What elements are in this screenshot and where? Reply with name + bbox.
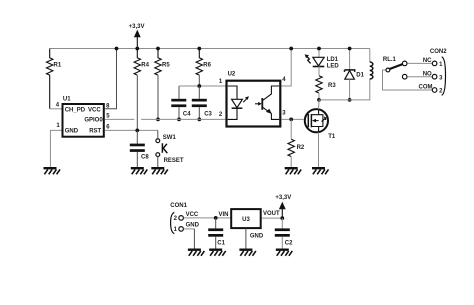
svg-text:U1: U1	[63, 97, 71, 103]
ground (U1 GND)	[44, 167, 61, 174]
wire: C3 top riser	[198, 86, 200, 99]
IC U1 ESP-01	[63, 97, 104, 137]
ground (T1)	[312, 167, 329, 174]
node VIN/C1 junction	[214, 216, 218, 220]
U2 internal phototransistor	[255, 103, 260, 105]
svg-text:D1: D1	[356, 73, 364, 79]
capacitor C4	[171, 99, 191, 118]
svg-text:C4: C4	[183, 112, 191, 118]
wire: R1 bottom to U1 CH_PD	[50, 108, 62, 110]
svg-text:LD1: LD1	[327, 57, 339, 63]
wire: R4 bottom down to RST net (crosses GPIO0 wire)	[136, 75, 138, 130]
wire: RST net U1 pin6 to SW1	[105, 129, 158, 131]
node rail/U2 pin4 junction	[289, 47, 293, 51]
wire: VCC riser to U1 pin 8	[105, 49, 117, 109]
svg-text:C8: C8	[141, 155, 149, 161]
node R6/C3/C4 net junction	[197, 84, 201, 88]
ground (C1)	[209, 249, 226, 256]
svg-text:VIN: VIN	[219, 212, 229, 218]
U2 internal LED	[228, 86, 237, 99]
svg-text:NO: NO	[423, 72, 432, 78]
LED LD1	[305, 49, 340, 70]
wire: rail right end down to relay coil	[369, 49, 371, 63]
svg-text:GND: GND	[250, 233, 264, 239]
capacitor C2	[275, 218, 293, 248]
svg-text:T1: T1	[328, 134, 336, 140]
switch SW1 RESET	[156, 135, 184, 164]
svg-text:R1: R1	[54, 62, 62, 68]
svg-text:VOUT: VOUT	[263, 211, 280, 217]
node C4/GPIO0 junction	[177, 118, 181, 122]
svg-text:R6: R6	[203, 62, 211, 68]
svg-text:U3: U3	[242, 217, 250, 223]
wire: LD1 to R3	[318, 66, 320, 75]
optocoupler U2	[227, 72, 281, 127]
svg-text:R3: R3	[328, 83, 336, 89]
wire: R6 bottom to C-top net	[198, 75, 200, 86]
node rail/R6 junction	[197, 47, 201, 51]
wire: SW1 bottom to ground	[157, 157, 159, 168]
wire: drain node to T1	[318, 100, 321, 109]
node rail/R5 junction	[156, 47, 160, 51]
wire: drain bus to relay	[319, 79, 370, 100]
node C3/GPIO0 junction	[197, 118, 201, 122]
svg-text:LED: LED	[327, 63, 340, 69]
wire: U2 pin3 to T1 gate	[281, 118, 304, 120]
capacitor C8	[130, 130, 150, 167]
relay RL.1 coil	[370, 57, 397, 79]
svg-text:GND: GND	[65, 129, 79, 135]
wire: CON1 GND down	[184, 228, 195, 230]
ground (CON1 GND)	[188, 249, 205, 256]
wire: R3 to drain node	[318, 93, 320, 100]
node rail/VCC junction	[115, 47, 119, 51]
resistor R2	[288, 119, 305, 167]
resistor R5	[155, 49, 171, 76]
power +3,3V (bottom)	[275, 195, 291, 218]
svg-text:RST: RST	[89, 129, 101, 135]
svg-text:U2: U2	[228, 72, 236, 78]
power +3,3V (top)	[129, 24, 145, 48]
ground (U3)	[239, 249, 256, 256]
ground (R2)	[285, 167, 302, 174]
svg-text:C2: C2	[285, 241, 293, 247]
svg-text:R4: R4	[141, 62, 149, 68]
svg-text:VCC: VCC	[88, 107, 101, 113]
node rail/LD1 junction	[317, 47, 321, 51]
wire: R5 bottom to GPIO0 net	[157, 75, 159, 119]
resistor R4	[134, 49, 150, 76]
connector CON2	[419, 49, 448, 96]
node drain/LED chain junction	[317, 98, 321, 102]
node R5/GPIO0 junction	[156, 118, 160, 122]
node bottom/D1 junction	[348, 98, 352, 102]
svg-text:RESET: RESET	[164, 158, 184, 164]
svg-text:GND: GND	[186, 222, 200, 228]
wire: U1 GND to ground	[50, 130, 61, 167]
svg-text:+3,3V: +3,3V	[129, 24, 145, 30]
ground (C8)	[131, 167, 148, 174]
connector CON1	[170, 203, 199, 234]
node RST/R4/C8 junction	[135, 129, 139, 133]
ground (SW1)	[151, 167, 168, 174]
svg-text:CH_PD: CH_PD	[65, 107, 86, 113]
resistor R1	[47, 49, 62, 109]
diode D1 (schottky, cathode up)	[345, 49, 365, 100]
wire: C3 bottom to GPIO0 net	[198, 107, 200, 119]
resistor R3	[316, 76, 337, 93]
svg-text:NC: NC	[423, 58, 432, 64]
svg-text:GPIO0: GPIO0	[84, 118, 103, 124]
wire: U3 GND to ground	[245, 228, 247, 248]
svg-text:VCC: VCC	[186, 212, 199, 218]
node gate/R2 junction	[289, 118, 293, 122]
svg-text:RL.1: RL.1	[383, 57, 397, 63]
svg-text:COM: COM	[419, 84, 433, 90]
svg-text:CON2: CON2	[430, 49, 447, 55]
relay switch contacts	[383, 61, 437, 92]
regulator U3	[231, 209, 280, 239]
node VOUT/C2 junction	[280, 216, 284, 220]
svg-text:+3,3V: +3,3V	[275, 195, 291, 201]
wire: GPIO0 net U1 pin5 to U2 pin2 (hop gap at R4 crossing)	[105, 118, 135, 120]
resistor R6	[196, 49, 212, 76]
capacitor C3	[192, 99, 213, 118]
transistor T1 (N-MOSFET)	[305, 109, 336, 140]
svg-text:R2: R2	[297, 145, 305, 151]
ground (C2)	[276, 249, 293, 256]
wire: T1 source to ground	[318, 132, 320, 167]
wire: net C4/C3 tops to U2 pin 1	[178, 86, 180, 99]
wire: +3.3V power rail	[50, 48, 370, 50]
svg-text:C3: C3	[204, 112, 212, 118]
svg-text:R5: R5	[162, 62, 170, 68]
node rail/D1 junction	[348, 47, 352, 51]
wire: CON1 VCC to U3 VIN	[184, 217, 231, 219]
capacitor C1	[208, 218, 225, 249]
svg-text:C1: C1	[217, 241, 225, 247]
svg-text:SW1: SW1	[163, 135, 177, 141]
wire: C4 bottom to GPIO0 net	[178, 107, 180, 119]
wire: U2 pin4 to rail	[281, 49, 291, 87]
svg-text:CON1: CON1	[170, 203, 187, 209]
wire: U3 VOUT to +3.3V node	[262, 217, 283, 219]
node rail/R4 junction	[135, 47, 139, 51]
